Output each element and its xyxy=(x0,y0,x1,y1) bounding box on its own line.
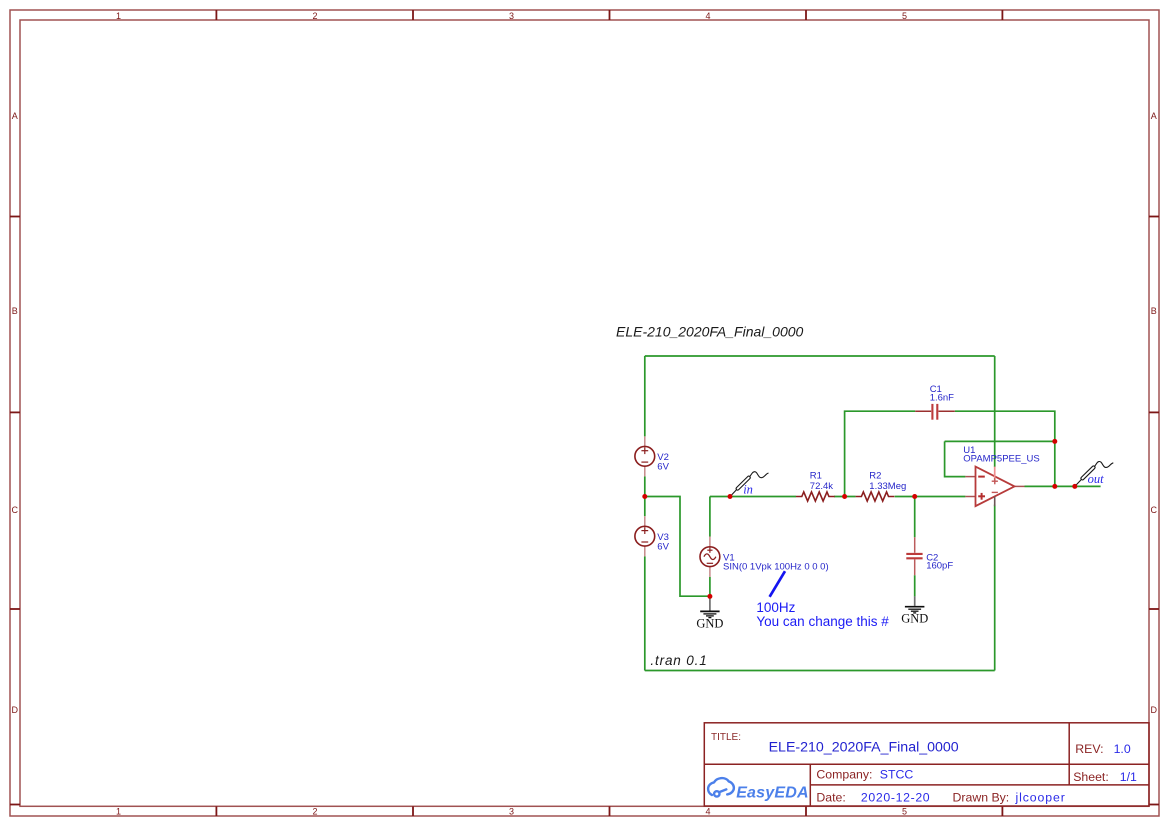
capacitor C1 xyxy=(915,410,955,412)
svg-text:GND: GND xyxy=(696,616,723,630)
svg-text:100Hz: 100Hz xyxy=(756,600,795,615)
probe at node out xyxy=(1075,462,1114,487)
wire: C1 right to feedback corner xyxy=(955,411,1055,441)
svg-text:R2: R2 xyxy=(869,471,881,482)
op-amp U1 supply marks xyxy=(992,478,998,492)
wire: feedback branch up to C1 xyxy=(845,411,916,496)
svg-text:D: D xyxy=(11,705,18,715)
frame row labels right xyxy=(1150,111,1157,715)
svg-text:4: 4 xyxy=(705,11,710,21)
frame column ticks top xyxy=(216,10,1002,20)
svg-text:Date:: Date: xyxy=(816,791,845,805)
title block row divider 2 xyxy=(810,784,1149,786)
op-amp U1 triangle xyxy=(976,467,1015,507)
svg-text:EasyEDA: EasyEDA xyxy=(736,784,809,801)
svg-text:2: 2 xyxy=(312,11,317,21)
svg-text:6V: 6V xyxy=(657,542,669,553)
frame row labels left xyxy=(11,111,18,715)
annotation callout line xyxy=(770,571,785,597)
svg-text:ELE-210_2020FA_Final_0000: ELE-210_2020FA_Final_0000 xyxy=(769,740,959,756)
svg-text:SIN(0 1Vpk 100Hz 0 0 0): SIN(0 1Vpk 100Hz 0 0 0) xyxy=(723,562,829,573)
wire: main input net to R1 xyxy=(710,496,796,498)
svg-text:1: 1 xyxy=(116,806,121,816)
svg-text:OPAMP5PEE_US: OPAMP5PEE_US xyxy=(963,453,1039,464)
op-amp U1 V+ pin xyxy=(994,467,996,481)
frame column ticks bottom xyxy=(216,806,1002,816)
frame column labels bottom xyxy=(116,806,907,816)
svg-text:A: A xyxy=(1151,111,1157,121)
svg-text:Company:: Company: xyxy=(816,767,872,781)
wire: left rail V2 to V3 xyxy=(644,476,646,516)
junction: node in (probe attach) xyxy=(728,494,733,499)
junction: output/feedback node xyxy=(1052,484,1057,489)
svg-text:REV:: REV: xyxy=(1075,742,1103,756)
svg-text:Sheet:: Sheet: xyxy=(1073,770,1109,784)
wire: right rail lower (from op-amp V-) xyxy=(994,505,996,671)
svg-text:D: D xyxy=(1150,705,1157,715)
title block row divider 1 xyxy=(704,763,1149,765)
junction: C1/feedback node xyxy=(1052,439,1057,444)
svg-text:B: B xyxy=(1151,306,1157,316)
wire: R1 to R2 xyxy=(834,496,856,498)
svg-text:1.6nF: 1.6nF xyxy=(930,393,954,404)
wire: C2 top branch xyxy=(914,497,916,538)
frame row ticks left xyxy=(10,217,20,805)
wire: outer loop top edge xyxy=(645,355,995,357)
op-amp U1 input polarity marks xyxy=(978,477,985,500)
svg-text:2020-12-20: 2020-12-20 xyxy=(861,791,930,805)
wire: feedback box top edge xyxy=(945,440,1055,442)
ground symbol GND (under V1) xyxy=(696,597,723,631)
wire: right rail upper (to op-amp V+) xyxy=(994,356,996,467)
svg-text:GND: GND xyxy=(901,612,928,626)
svg-text:TITLE:: TITLE: xyxy=(711,732,741,743)
wire: R2 to op-amp non-inverting input xyxy=(895,496,966,498)
op-amp U1 pins xyxy=(965,477,1024,497)
svg-text:1.0: 1.0 xyxy=(1114,742,1131,756)
title block logo cell divider xyxy=(809,764,811,806)
svg-text:5: 5 xyxy=(902,11,907,21)
wire: V1 top to input node xyxy=(709,497,711,537)
wire: V1 bottom to ground node xyxy=(709,577,711,597)
wire: mid-rail ground branch xyxy=(645,497,710,597)
svg-text:STCC: STCC xyxy=(880,767,914,781)
svg-text:B: B xyxy=(12,306,18,316)
junction: V1/GND node xyxy=(707,594,712,599)
svg-text:160pF: 160pF xyxy=(926,561,953,572)
wire: feedback box left to inverting input xyxy=(945,441,966,476)
junction: V2/V3 midpoint node xyxy=(642,494,647,499)
svg-text:5: 5 xyxy=(902,806,907,816)
svg-text:out: out xyxy=(1088,472,1105,486)
svg-text:A: A xyxy=(12,111,18,121)
frame column labels top xyxy=(116,11,907,21)
svg-text:1: 1 xyxy=(116,11,121,21)
svg-text:Drawn By:: Drawn By: xyxy=(953,791,1010,805)
svg-text:4: 4 xyxy=(705,806,710,816)
voltage source V3 xyxy=(644,516,646,556)
wire: left rail below V3 xyxy=(644,556,646,670)
op-amp U1 V- pin xyxy=(994,496,996,506)
voltage source V2 xyxy=(644,436,646,476)
svg-text:2: 2 xyxy=(312,806,317,816)
TITLEBLOCK xyxy=(704,723,1149,806)
junction: node out (probe attach) xyxy=(1072,484,1077,489)
ground symbol GND (under C2) xyxy=(901,596,928,625)
title block outline xyxy=(704,723,1149,806)
wire: left rail above V2 xyxy=(644,356,646,436)
wire: op-amp output net xyxy=(1025,485,1101,487)
sine source V1 xyxy=(709,537,711,578)
capacitor C2 xyxy=(914,537,916,575)
svg-text:72.4k: 72.4k xyxy=(810,481,833,492)
svg-text:in: in xyxy=(743,482,753,496)
svg-text:C: C xyxy=(11,505,18,515)
frame row ticks right xyxy=(1149,217,1159,805)
resistor R2 xyxy=(856,492,895,501)
svg-text:jlcooper: jlcooper xyxy=(1015,791,1066,805)
svg-text:6V: 6V xyxy=(657,462,669,473)
EasyEDA logo cloud icon xyxy=(708,778,734,796)
svg-text:.tran 0.1: .tran 0.1 xyxy=(650,653,707,668)
junction: R2/C2 node xyxy=(912,494,917,499)
svg-text:1/1: 1/1 xyxy=(1120,770,1137,784)
wire: feedback vertical to output xyxy=(1054,441,1056,486)
wire: C2 bottom to ground xyxy=(914,575,916,596)
CIRCUIT xyxy=(635,356,1113,671)
probe at node in xyxy=(730,472,769,497)
svg-text:3: 3 xyxy=(509,806,514,816)
junction: R1/R2/C1 node xyxy=(842,494,847,499)
svg-text:ELE-210_2020FA_Final_0000: ELE-210_2020FA_Final_0000 xyxy=(616,324,804,340)
resistor R1 xyxy=(796,492,835,501)
svg-text:You can change this #: You can change this # xyxy=(756,614,889,629)
svg-text:1.33Meg: 1.33Meg xyxy=(869,481,906,492)
svg-text:C: C xyxy=(1150,505,1157,515)
svg-text:3: 3 xyxy=(509,11,514,21)
svg-text:R1: R1 xyxy=(810,471,822,482)
title block rev column divider xyxy=(1068,723,1070,785)
wire: outer loop bottom edge xyxy=(645,670,995,672)
